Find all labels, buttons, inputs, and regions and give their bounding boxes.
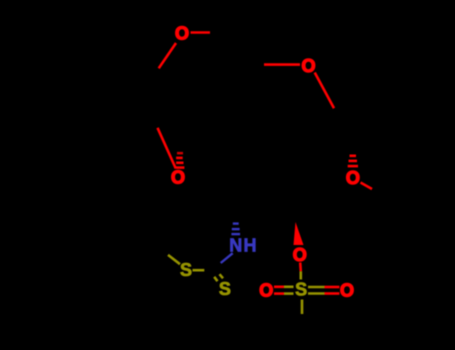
svg-text:N: N: [229, 235, 242, 255]
svg-text:O: O: [340, 281, 354, 301]
svg-text:O: O: [175, 23, 189, 43]
svg-text:H: H: [244, 235, 257, 255]
svg-text:O: O: [259, 281, 273, 301]
svg-text:S: S: [295, 280, 307, 300]
svg-text:O: O: [171, 167, 185, 187]
svg-text:S: S: [180, 260, 192, 280]
svg-text:O: O: [293, 245, 307, 265]
svg-text:O: O: [346, 168, 360, 188]
svg-text:O: O: [301, 56, 315, 76]
svg-text:S: S: [219, 279, 231, 299]
